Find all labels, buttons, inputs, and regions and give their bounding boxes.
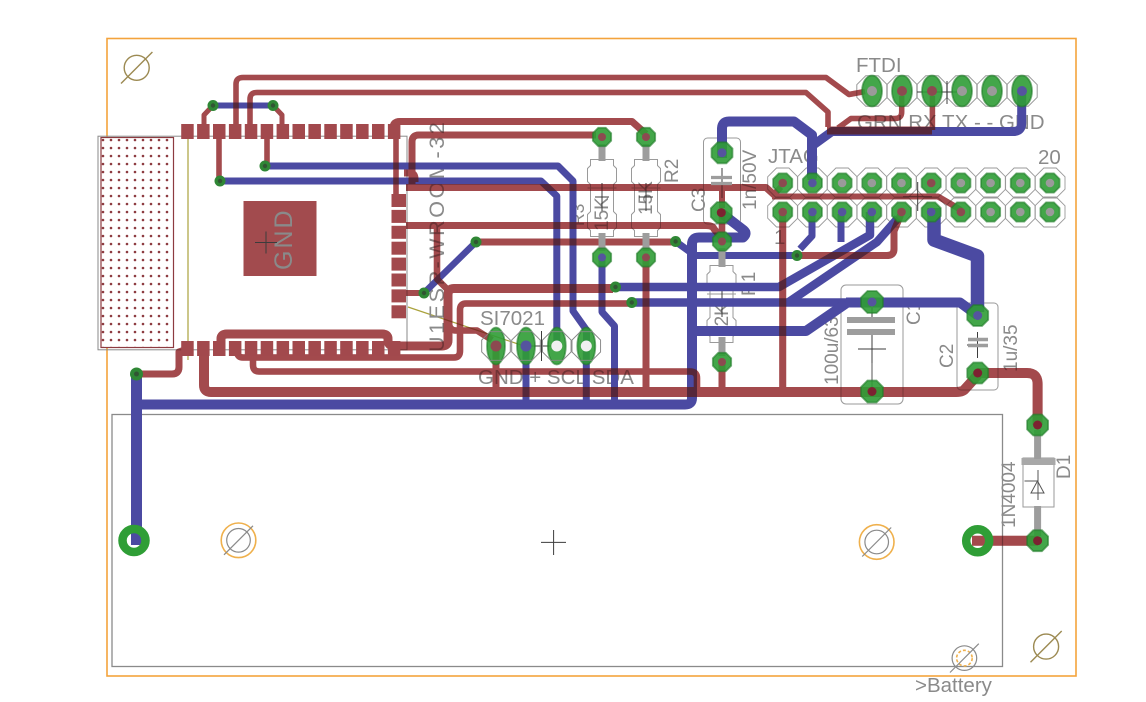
capacitor C1 pads xyxy=(861,291,883,313)
ESP32 right pad column xyxy=(392,194,407,318)
wire via631 to C1 (y302.5) xyxy=(632,298,866,307)
svg-text:GND: GND xyxy=(270,208,298,270)
wire ESP pad6 to SCL (y166) xyxy=(265,166,587,346)
svg-text:SI7021: SI7021 xyxy=(480,307,545,330)
capacitor C1 lead xyxy=(871,306,873,317)
SI7021 outline octagons xyxy=(482,332,601,361)
ESP32 top pad row xyxy=(181,124,400,139)
wire SI pad2 down xyxy=(523,346,530,404)
wire via675 to via797 xyxy=(676,242,797,256)
svg-text:20: 20 xyxy=(1038,146,1061,169)
capacitor C2 body xyxy=(957,303,998,390)
module U1 antenna area xyxy=(101,138,174,348)
board frame xyxy=(107,39,1076,677)
battery center cross xyxy=(541,530,566,555)
GND copper square on module xyxy=(244,201,317,276)
hole symbol bottom-right xyxy=(1031,631,1062,662)
BLUE-TRACES xyxy=(137,92,1022,545)
wire FTDI GND to JTAG col2 xyxy=(812,92,1022,180)
module tDocu olive line xyxy=(187,136,189,360)
capacitor C1 body xyxy=(841,285,903,404)
capacitor C2 pads xyxy=(967,305,988,326)
svg-text:>Battery: >Battery xyxy=(915,674,993,697)
resistor R1 body xyxy=(707,266,736,343)
resistor R2 body xyxy=(632,160,661,237)
PADS xyxy=(123,76,1060,553)
wire JTAG col3 bottom stub xyxy=(838,214,845,242)
JTAG pads 2x10 xyxy=(773,173,1059,221)
SILKSCREEN-LAYER xyxy=(98,54,1075,697)
wire via-pair jumper top xyxy=(213,103,273,109)
capacitor C1 plates xyxy=(847,320,895,332)
svg-text:1n/50V: 1n/50V xyxy=(740,149,761,210)
battery pad right xyxy=(966,529,989,552)
svg-text:C3: C3 xyxy=(689,188,710,212)
wire C3 to JTAG col2 xyxy=(722,122,812,179)
wire x692 vertical and y404 long xyxy=(137,213,746,405)
diode D1 pads xyxy=(1027,415,1048,436)
vias xyxy=(130,100,803,381)
FTDI outline octagons xyxy=(857,76,1037,106)
wire battery left vertical xyxy=(131,374,142,545)
battery outline xyxy=(112,415,1003,667)
svg-text:100u/63: 100u/63 xyxy=(822,316,843,385)
SI7021 cross xyxy=(527,331,557,361)
mounting hole left xyxy=(221,523,256,558)
wire via615 to JTAG col4 (y286) xyxy=(616,212,871,287)
resistor R2 leads xyxy=(643,144,650,251)
resistor R3 body xyxy=(588,160,617,237)
wire thick y331 xyxy=(692,304,846,332)
wire JTAG col5 diagonal to y302 xyxy=(788,218,898,303)
resistor R3 leads xyxy=(599,144,606,251)
capacitor C3 pads xyxy=(712,142,733,163)
wire R3 to SDA xyxy=(602,257,615,404)
svg-text:1u/35: 1u/35 xyxy=(1001,324,1022,372)
SI7021 octagon outlines over pads xyxy=(482,332,601,361)
battery pad left xyxy=(123,529,146,552)
wire via424 to via476 diagonal xyxy=(424,242,476,293)
FTDI pads xyxy=(862,76,1032,107)
diode D1 leads xyxy=(1034,430,1041,536)
JTAG cross xyxy=(903,182,932,211)
capacitor C2 plates xyxy=(968,340,988,346)
resistor R3 pads xyxy=(593,128,611,146)
JTAG outline octagons xyxy=(768,168,1065,227)
wire C1 to C2 top xyxy=(846,303,978,316)
ESP32 bottom pad row xyxy=(181,341,400,356)
resistor R1 pads xyxy=(713,232,731,250)
svg-text:1N4004: 1N4004 xyxy=(999,461,1020,528)
diode D1 body xyxy=(1022,458,1056,507)
wire ESP pad3 to SCL pad (y181) xyxy=(220,181,557,346)
module U1 outline xyxy=(98,136,407,350)
olive line to SI7021 xyxy=(408,307,524,346)
resistor R1 leads xyxy=(719,248,726,356)
wire JTAG col2 bottom stub xyxy=(800,214,812,249)
capacitor C3 body xyxy=(704,138,741,224)
wire SDA pad down xyxy=(583,346,590,404)
svg-text:FTDI: FTDI xyxy=(856,54,902,77)
capacitor C3 plates xyxy=(711,178,732,184)
svg-text:D1: D1 xyxy=(1054,455,1075,479)
FTDI cross xyxy=(917,81,963,104)
hole bottom edge of battery xyxy=(950,644,979,673)
mounting hole right xyxy=(859,525,894,560)
resistor R2 pads xyxy=(637,128,655,146)
LEADS xyxy=(602,144,1038,536)
wire JTAG col6 to C2 thick xyxy=(934,208,978,312)
svg-text:C2: C2 xyxy=(937,344,958,368)
hole symbol top-left xyxy=(121,52,152,84)
svg-text:R2: R2 xyxy=(662,159,683,183)
SI7021 pads xyxy=(487,328,595,365)
